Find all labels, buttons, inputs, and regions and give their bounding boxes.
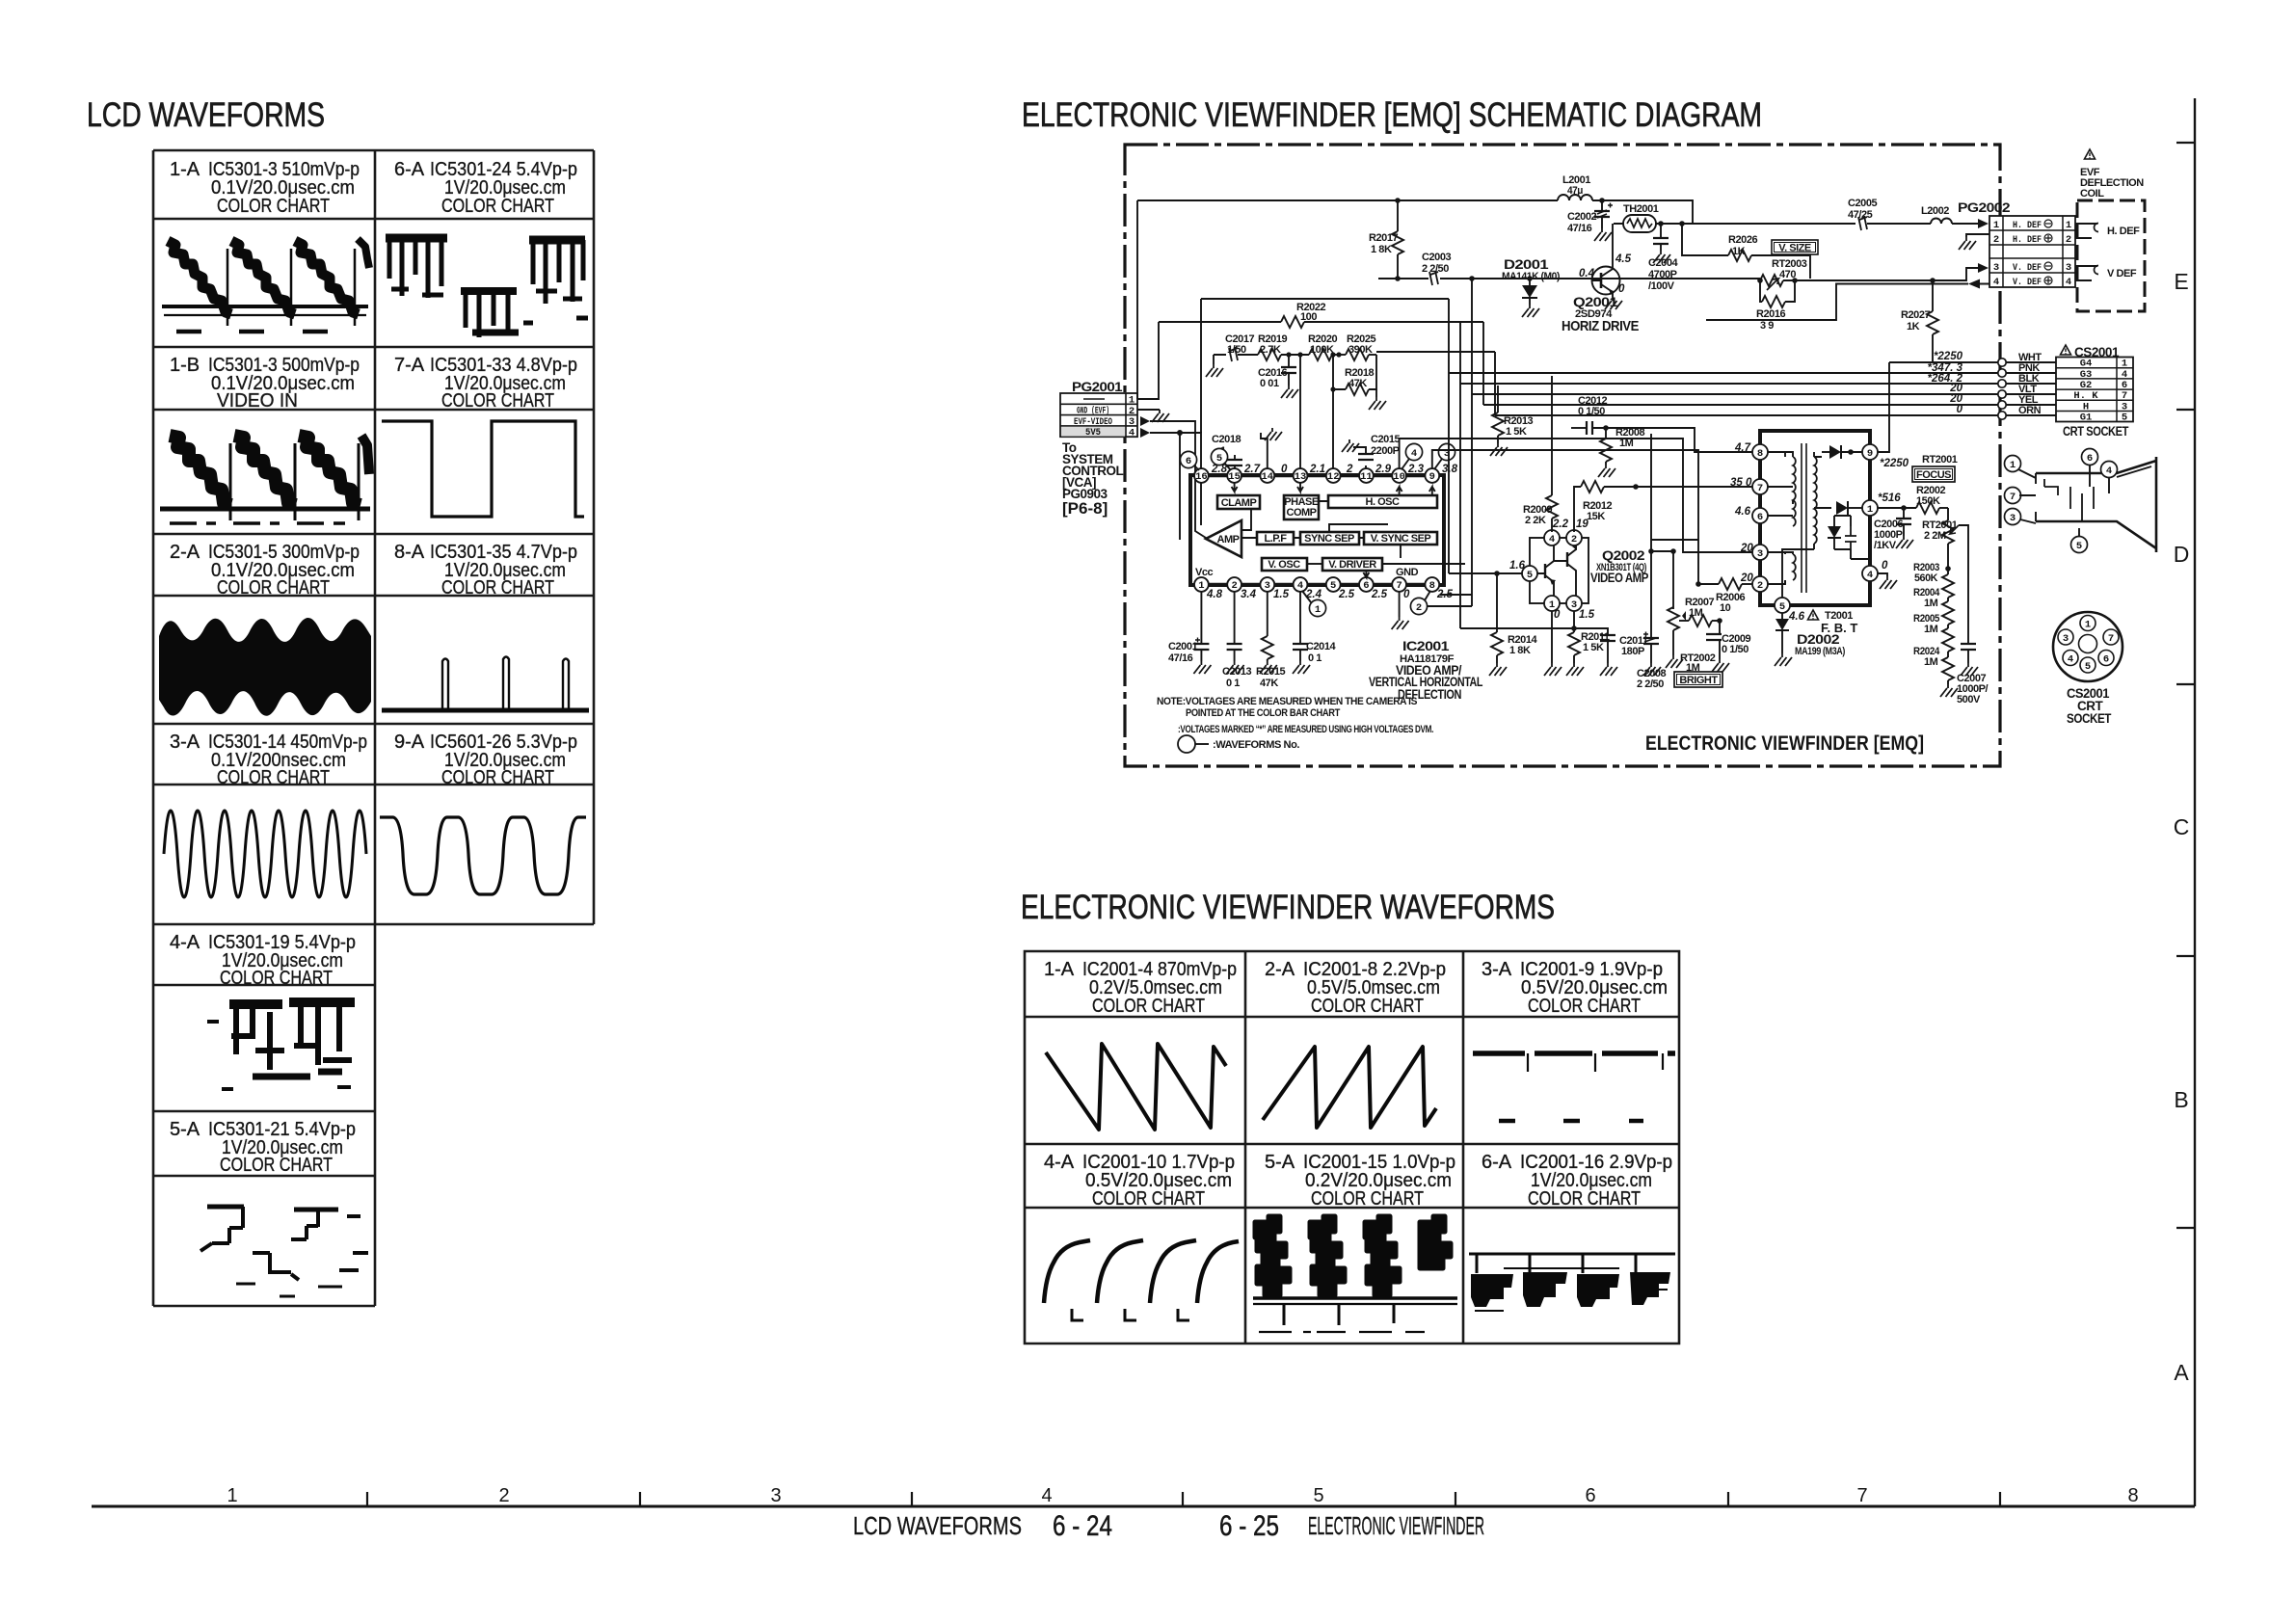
svg-text:4.6: 4.6	[1788, 611, 1805, 623]
svg-text:/100V: /100V	[1648, 280, 1675, 292]
diode top in FBT	[1822, 445, 1862, 459]
svg-text:3: 3	[1757, 548, 1763, 560]
svg-text:1-A: 1-A	[170, 159, 200, 180]
svg-text:1: 1	[1129, 395, 1135, 407]
wire IC to FBT pin2 branch	[1432, 450, 1698, 540]
waveform no 6	[1180, 451, 1199, 470]
svg-text:H: H	[2083, 401, 2089, 412]
internal block PHASE COMP	[1284, 483, 1319, 519]
label T2001 FBT	[1788, 610, 1857, 635]
svg-text:1: 1	[2066, 220, 2071, 231]
wire bus WHT	[1889, 351, 2056, 366]
svg-text:ELECTRONIC VIEWFINDER: ELECTRONIC VIEWFINDER	[1308, 1511, 1484, 1540]
wire bus VLT	[1472, 383, 2056, 398]
svg-text:COMP: COMP	[1287, 507, 1317, 519]
svg-text:POINTED AT THE COLOR BAR CHART: POINTED AT THE COLOR BAR CHART	[1186, 707, 1341, 719]
internal block SYNC SEP	[1300, 524, 1388, 545]
svg-text:CRT SOCKET: CRT SOCKET	[2063, 424, 2129, 439]
waveform no legend	[1178, 735, 1299, 753]
svg-text:3: 3	[2063, 633, 2069, 645]
pin 6	[1359, 577, 1374, 592]
svg-text:5-A: 5-A	[170, 1119, 200, 1140]
svg-text:9-A: 9-A	[394, 732, 425, 753]
svg-text:ELECTRONIC VIEWFINDER [EMQ]: ELECTRONIC VIEWFINDER [EMQ]	[1645, 732, 1924, 755]
svg-text:COLOR CHART: COLOR CHART	[1528, 996, 1641, 1017]
To SYSTEM CONTROL note	[1062, 440, 1123, 518]
pin 8	[1425, 577, 1439, 592]
wire pin12 feed	[1332, 389, 1334, 468]
svg-text:8: 8	[1429, 580, 1435, 592]
svg-text:4: 4	[1041, 1485, 1052, 1506]
svg-text:V. DEF: V. DEF	[2013, 277, 2042, 288]
svg-text:4: 4	[2068, 654, 2073, 666]
svg-text:COLOR CHART: COLOR CHART	[441, 577, 554, 599]
svg-text:C2001: C2001	[1168, 641, 1197, 652]
svg-text:0: 0	[1554, 609, 1561, 621]
capacitor C2002	[1567, 200, 1613, 241]
connector PG2002	[1958, 200, 2075, 288]
svg-text:5: 5	[1313, 1485, 1323, 1506]
svg-text:0: 0	[1957, 404, 1963, 415]
resistor R2009	[1523, 376, 1558, 531]
svg-text:5-A: 5-A	[1265, 1152, 1295, 1173]
waveform no 5	[1211, 448, 1231, 470]
svg-text:2: 2	[1416, 602, 1422, 614]
BRIGHT box	[1674, 672, 1722, 687]
svg-text:2.3: 2.3	[1407, 464, 1425, 475]
svg-text:6 - 25: 6 - 25	[1219, 1510, 1279, 1542]
CS2001 socket table	[2056, 345, 2133, 439]
svg-text:FOCUS: FOCUS	[1916, 469, 1951, 481]
svg-text:0 01: 0 01	[1260, 378, 1279, 389]
svg-text:3 9: 3 9	[1760, 320, 1774, 332]
svg-text:C2005: C2005	[1848, 198, 1877, 209]
pin7 ground	[1399, 592, 1401, 617]
svg-text:6: 6	[1363, 580, 1369, 592]
pot RT2003	[1592, 258, 1978, 290]
resistor R2018 loop	[1330, 352, 1386, 410]
svg-text:E: E	[2174, 269, 2188, 294]
svg-text:1: 1	[227, 1485, 237, 1506]
wire Q2002 base feed	[1449, 572, 1522, 574]
svg-text:4: 4	[1993, 277, 1999, 288]
svg-text:1-A: 1-A	[1044, 959, 1075, 980]
svg-text:V. SYNC SEP: V. SYNC SEP	[1371, 533, 1431, 545]
svg-text:R2026: R2026	[1728, 234, 1757, 246]
svg-text:MA199 (M3A): MA199 (M3A)	[1795, 646, 1846, 657]
svg-text:Q2002: Q2002	[1602, 548, 1644, 563]
Q2002 pin1 ground	[1551, 611, 1553, 663]
svg-text:5: 5	[1527, 570, 1533, 581]
svg-text:Q2001: Q2001	[1573, 295, 1618, 309]
svg-text:1M: 1M	[1924, 624, 1938, 635]
svg-text:8: 8	[1757, 448, 1763, 460]
svg-text:2: 2	[1757, 580, 1763, 592]
pin 15	[1227, 468, 1241, 483]
svg-text:G2: G2	[2080, 380, 2093, 391]
capacitor C2016	[1258, 355, 1298, 398]
svg-text:4: 4	[1549, 534, 1555, 545]
svg-text:8: 8	[2127, 1485, 2138, 1506]
capacitor C2009	[1706, 621, 1750, 672]
svg-text:V DEF: V DEF	[2107, 268, 2137, 279]
svg-text:D: D	[2174, 542, 2190, 567]
resistor R2003	[1913, 562, 1954, 598]
capacitor C2014	[1293, 592, 1336, 674]
capacitor C2004	[1648, 224, 1678, 292]
svg-text:4: 4	[1297, 580, 1303, 592]
svg-text:19: 19	[1576, 519, 1589, 530]
svg-text:1: 1	[1198, 580, 1204, 592]
CRT funnel	[2005, 449, 2157, 553]
arrow into PG2002 pin3	[1978, 263, 1989, 273]
svg-text:47/16: 47/16	[1168, 652, 1193, 664]
svg-text:1: 1	[1867, 504, 1873, 516]
svg-text:35 0: 35 0	[1730, 477, 1752, 489]
svg-text:4-A: 4-A	[170, 932, 200, 953]
svg-text:3: 3	[1129, 416, 1135, 428]
svg-text:2: 2	[1993, 234, 1999, 246]
inductor L2002	[1921, 205, 1978, 224]
resistor R2019	[1258, 349, 1281, 360]
resistor R2027	[1901, 278, 1938, 362]
svg-text:7: 7	[2010, 492, 2016, 503]
FBT pin 2	[1740, 572, 1768, 592]
svg-text:CLAMP: CLAMP	[1221, 497, 1257, 509]
svg-text:5: 5	[2085, 661, 2091, 673]
wire bus BLK	[1460, 373, 2056, 387]
wire C2008 top feed	[1651, 540, 1698, 551]
ic bottom pin wire	[1201, 583, 1432, 586]
svg-text:15K: 15K	[1587, 511, 1605, 522]
wf 3-A	[164, 811, 366, 897]
svg-text:1K: 1K	[1907, 321, 1920, 333]
svg-text:9: 9	[1429, 471, 1435, 483]
svg-text:3: 3	[1993, 262, 1999, 274]
svg-text:V. OSC: V. OSC	[1268, 559, 1300, 571]
wf b6-A blocks under line	[1469, 1254, 1675, 1273]
svg-text:6: 6	[2122, 380, 2127, 391]
wire V.DEF return pin4	[1706, 284, 1989, 321]
svg-text:47K: 47K	[1260, 678, 1278, 689]
svg-text:3: 3	[2122, 401, 2127, 412]
ic top pin wire	[1201, 474, 1432, 477]
svg-text:TH2001: TH2001	[1623, 203, 1659, 215]
svg-text:1M: 1M	[1924, 598, 1938, 609]
internal block V.DRIVER	[1322, 545, 1465, 577]
svg-text:RT2001: RT2001	[1922, 454, 1958, 466]
svg-text:3: 3	[1571, 599, 1577, 611]
svg-text:COLOR CHART: COLOR CHART	[1311, 1188, 1424, 1210]
svg-text:C2015: C2015	[1371, 434, 1400, 445]
wire top rail	[1137, 200, 1558, 201]
IC2001 box	[1190, 475, 1444, 585]
svg-text:Vcc: Vcc	[1195, 567, 1214, 578]
pin 3	[1260, 577, 1274, 592]
svg-text:2: 2	[498, 1485, 509, 1506]
svg-text:COLOR CHART: COLOR CHART	[441, 390, 554, 412]
svg-text:D2001: D2001	[1504, 257, 1549, 272]
svg-text:L.P.F: L.P.F	[1265, 533, 1288, 545]
svg-text:3.8: 3.8	[1442, 464, 1458, 475]
pin 11	[1359, 468, 1374, 483]
svg-text:C2014: C2014	[1306, 641, 1336, 652]
internal block CLAMP	[1217, 483, 1260, 509]
svg-text:VIDEO IN: VIDEO IN	[217, 390, 298, 412]
svg-text:G3: G3	[2080, 369, 2093, 381]
svg-text:12: 12	[1327, 471, 1340, 483]
wf 8-A	[382, 657, 589, 711]
svg-text:3-A: 3-A	[1482, 959, 1512, 980]
svg-text:PG2001: PG2001	[1072, 380, 1123, 394]
resistor R2012	[1574, 481, 1752, 531]
capacitor C2011	[1574, 628, 1648, 676]
svg-text:2: 2	[1571, 534, 1577, 545]
svg-text:PG2002: PG2002	[1958, 200, 2010, 215]
ground mid (pin14 riser)	[1261, 433, 1268, 468]
diode D2001	[1502, 257, 1561, 317]
svg-text:0: 0	[1281, 464, 1288, 475]
pin 5	[1326, 577, 1341, 592]
svg-text:2.7K: 2.7K	[1260, 344, 1281, 356]
svg-text:4: 4	[1411, 448, 1417, 460]
svg-text:0 1: 0 1	[1226, 678, 1240, 689]
svg-text:LCD WAVEFORMS: LCD WAVEFORMS	[853, 1511, 1022, 1540]
resistor R2007	[1679, 597, 1722, 626]
internal block L.P.F	[1241, 532, 1300, 545]
svg-text:*516: *516	[1878, 492, 1901, 504]
svg-text:COLOR CHART: COLOR CHART	[441, 767, 554, 788]
svg-text:4: 4	[2066, 277, 2071, 288]
resistor R2025	[1346, 349, 1369, 360]
svg-text:5: 5	[1216, 453, 1222, 465]
svg-text:GND (EVF): GND (EVF)	[1077, 406, 1109, 417]
resistor R2015	[1256, 592, 1285, 689]
wf b5-A heavy stair bursts	[1255, 1216, 1451, 1295]
svg-text:GND: GND	[1396, 567, 1419, 578]
svg-text:COLOR CHART: COLOR CHART	[1092, 1188, 1205, 1210]
pin 14	[1260, 468, 1274, 483]
waveform no 4	[1402, 443, 1423, 469]
svg-text:A: A	[2174, 1360, 2189, 1385]
svg-text:1: 1	[2122, 359, 2127, 370]
svg-text:500V: 500V	[1957, 694, 1981, 705]
svg-text:1 8K: 1 8K	[1371, 244, 1392, 255]
svg-text:100K: 100K	[1310, 344, 1334, 356]
svg-text:2.7: 2.7	[1243, 464, 1261, 475]
svg-text:*2250: *2250	[1934, 351, 1963, 362]
waveform no 3	[1434, 443, 1455, 469]
svg-text:47/16: 47/16	[1567, 223, 1592, 234]
svg-text:2 2/50: 2 2/50	[1637, 678, 1664, 690]
vertical feed at left	[1136, 200, 1138, 399]
resistor R2008	[1598, 427, 1644, 477]
capacitor C2008	[1637, 434, 1666, 690]
pin 7	[1392, 577, 1406, 592]
FBT pin 4	[1862, 560, 1888, 581]
pin 2	[1227, 577, 1241, 592]
svg-text:7: 7	[2108, 633, 2114, 645]
svg-text:COLOR CHART: COLOR CHART	[220, 968, 333, 989]
pot RT2002	[1666, 548, 1716, 674]
svg-text:LCD WAVEFORMS: LCD WAVEFORMS	[87, 96, 325, 134]
ground near PG2002 pin2	[1966, 234, 1989, 237]
svg-text:4.6: 4.6	[1734, 506, 1751, 518]
thermistor TH2001	[1614, 203, 1855, 232]
svg-text:COLOR CHART: COLOR CHART	[217, 577, 330, 599]
svg-text:4: 4	[1129, 427, 1135, 439]
svg-text:3: 3	[1265, 580, 1270, 592]
wf 4-A	[207, 1002, 355, 1089]
svg-text:SYNC SEP: SYNC SEP	[1304, 533, 1354, 545]
wf 1-A	[162, 239, 369, 332]
svg-text:15: 15	[1228, 471, 1241, 483]
diode mid in FBT	[1836, 501, 1862, 515]
svg-text:4: 4	[1867, 570, 1873, 581]
wf 7-A	[382, 421, 584, 517]
svg-text:7: 7	[1396, 580, 1402, 592]
wire R2022 line	[1159, 321, 1483, 323]
svg-text:10: 10	[1720, 602, 1731, 614]
svg-text:D2002: D2002	[1797, 632, 1839, 647]
svg-text:V. SIZE: V. SIZE	[1778, 243, 1811, 254]
svg-text:3.4: 3.4	[1241, 589, 1257, 600]
svg-text:0: 0	[1618, 283, 1625, 295]
svg-text:5: 5	[2076, 541, 2082, 552]
vertical harness wires	[1449, 279, 1495, 415]
diode D2002	[1775, 613, 1846, 666]
svg-text:2: 2	[1129, 406, 1135, 417]
wf 2-A	[159, 618, 371, 716]
svg-text:2.9: 2.9	[1375, 464, 1392, 475]
svg-text:H. OSC: H. OSC	[1366, 496, 1400, 508]
resistor R2006	[1695, 540, 1752, 614]
transformer T2001 FBT box	[1760, 431, 1870, 605]
capacitor C2005	[1848, 198, 1931, 230]
inductor L2001	[1558, 174, 1693, 224]
svg-text:H. DEF: H. DEF	[2107, 226, 2140, 237]
svg-text:7: 7	[1856, 1485, 1867, 1506]
svg-text:0 1: 0 1	[1308, 652, 1322, 664]
svg-text:C2004: C2004	[1648, 257, 1678, 269]
pot RT2001	[1922, 508, 1968, 572]
CS2001 CRT socket circle	[2053, 612, 2122, 726]
wf b3-A pulse	[1473, 1053, 1675, 1121]
wf 6-A	[386, 238, 588, 337]
svg-text:COLOR CHART: COLOR CHART	[1092, 996, 1205, 1017]
FBT pin 1	[1862, 500, 1878, 516]
resistor R2020	[1309, 349, 1332, 360]
FBT pin 8	[1734, 442, 1768, 460]
pin 12	[1326, 468, 1341, 483]
svg-text:6: 6	[1585, 1485, 1595, 1506]
svg-text:560K: 560K	[1914, 572, 1937, 584]
svg-text:7-A: 7-A	[394, 355, 425, 376]
svg-text:COLOR CHART: COLOR CHART	[1311, 996, 1424, 1017]
wire IC to FBT pin3	[1400, 439, 1752, 552]
svg-text:B: B	[2174, 1087, 2188, 1112]
arrow pin3 EVF-VIDEO	[1140, 416, 1150, 426]
svg-text:2.5: 2.5	[1338, 589, 1355, 600]
svg-text:1 8K: 1 8K	[1509, 645, 1531, 656]
wire bus ORN	[1495, 404, 2056, 419]
waveform no 2	[1410, 591, 1430, 615]
svg-text:L2002: L2002	[1921, 205, 1949, 217]
arrow pin4 5V5	[1140, 428, 1150, 438]
svg-text:2-A: 2-A	[1265, 959, 1295, 980]
svg-text:7: 7	[2122, 390, 2127, 402]
internal block V.OSC	[1262, 558, 1322, 571]
svg-text:R2016: R2016	[1756, 308, 1785, 320]
V.SIZE box	[1772, 240, 1818, 254]
svg-text:1.6: 1.6	[1509, 560, 1526, 572]
svg-text:2-A: 2-A	[170, 542, 200, 563]
FBT pin 7	[1730, 477, 1768, 494]
resistor R2014	[1489, 573, 1537, 676]
capacitor C2017	[1206, 333, 1258, 377]
svg-text:7: 7	[1757, 483, 1763, 494]
pin 1	[1194, 577, 1209, 592]
svg-text:COLOR CHART: COLOR CHART	[1528, 1188, 1641, 1210]
svg-text:5V5: 5V5	[1085, 427, 1101, 439]
svg-text:1: 1	[2010, 460, 2016, 471]
svg-text:G4: G4	[2080, 359, 2093, 370]
pin 10	[1392, 468, 1406, 483]
svg-text:180P: 180P	[1621, 646, 1644, 657]
bottom pin voltages	[1206, 589, 1454, 600]
svg-text:6-A: 6-A	[1482, 1152, 1512, 1173]
wire pin1 to R2022 line	[1137, 322, 1159, 399]
resistor R2022	[1281, 316, 1304, 328]
connector PG2001	[1060, 380, 1137, 439]
transistor pair Q2002	[1509, 519, 1648, 621]
svg-text:5: 5	[1779, 601, 1785, 613]
svg-text:5: 5	[2122, 412, 2127, 424]
capacitor C2001	[1168, 592, 1211, 674]
svg-text:COLOR CHART: COLOR CHART	[441, 196, 554, 217]
svg-text:1 5K: 1 5K	[1583, 642, 1604, 653]
capacitor C2013	[1222, 592, 1251, 689]
wire horiz drive rail	[1378, 278, 1592, 279]
svg-text:V. DEF: V. DEF	[2013, 262, 2042, 274]
wire bus YEL	[1483, 393, 2056, 409]
svg-text:1.5: 1.5	[1273, 589, 1290, 600]
svg-text:ELECTRONIC VIEWFINDER WAVEFORM: ELECTRONIC VIEWFINDER WAVEFORMS	[1021, 889, 1555, 926]
svg-text:4-A: 4-A	[1044, 1152, 1075, 1173]
FBT pin 5	[1775, 598, 1790, 613]
svg-text:13: 13	[1295, 471, 1307, 483]
svg-text:8-A: 8-A	[394, 542, 425, 563]
svg-text:COLOR CHART: COLOR CHART	[217, 767, 330, 788]
svg-text:10: 10	[1393, 471, 1405, 483]
svg-text:C2018: C2018	[1212, 434, 1241, 445]
svg-text:C2003: C2003	[1422, 252, 1451, 263]
svg-text:ELECTRONIC VIEWFINDER [EMQ] SC: ELECTRONIC VIEWFINDER [EMQ] SCHEMATIC DI…	[1022, 96, 1762, 134]
diode vertical in FBT	[1828, 516, 1851, 549]
resistor R2026	[1682, 224, 1810, 279]
svg-text:1.5: 1.5	[1579, 609, 1595, 621]
pin 4	[1294, 577, 1308, 592]
pin 13	[1294, 468, 1308, 483]
resistor R2016	[1756, 280, 1795, 332]
wire pin13 feed	[1299, 355, 1301, 468]
svg-text:16: 16	[1195, 471, 1208, 483]
svg-text:6: 6	[2087, 453, 2093, 465]
FBT pin9 to bus	[1878, 362, 1889, 452]
capacitor C2007	[1957, 569, 1989, 705]
svg-text:C2002: C2002	[1567, 211, 1596, 223]
svg-text::VOLTAGES MARKED “*” ARE MEASU: :VOLTAGES MARKED “*” ARE MEASURED USING …	[1178, 724, 1433, 735]
